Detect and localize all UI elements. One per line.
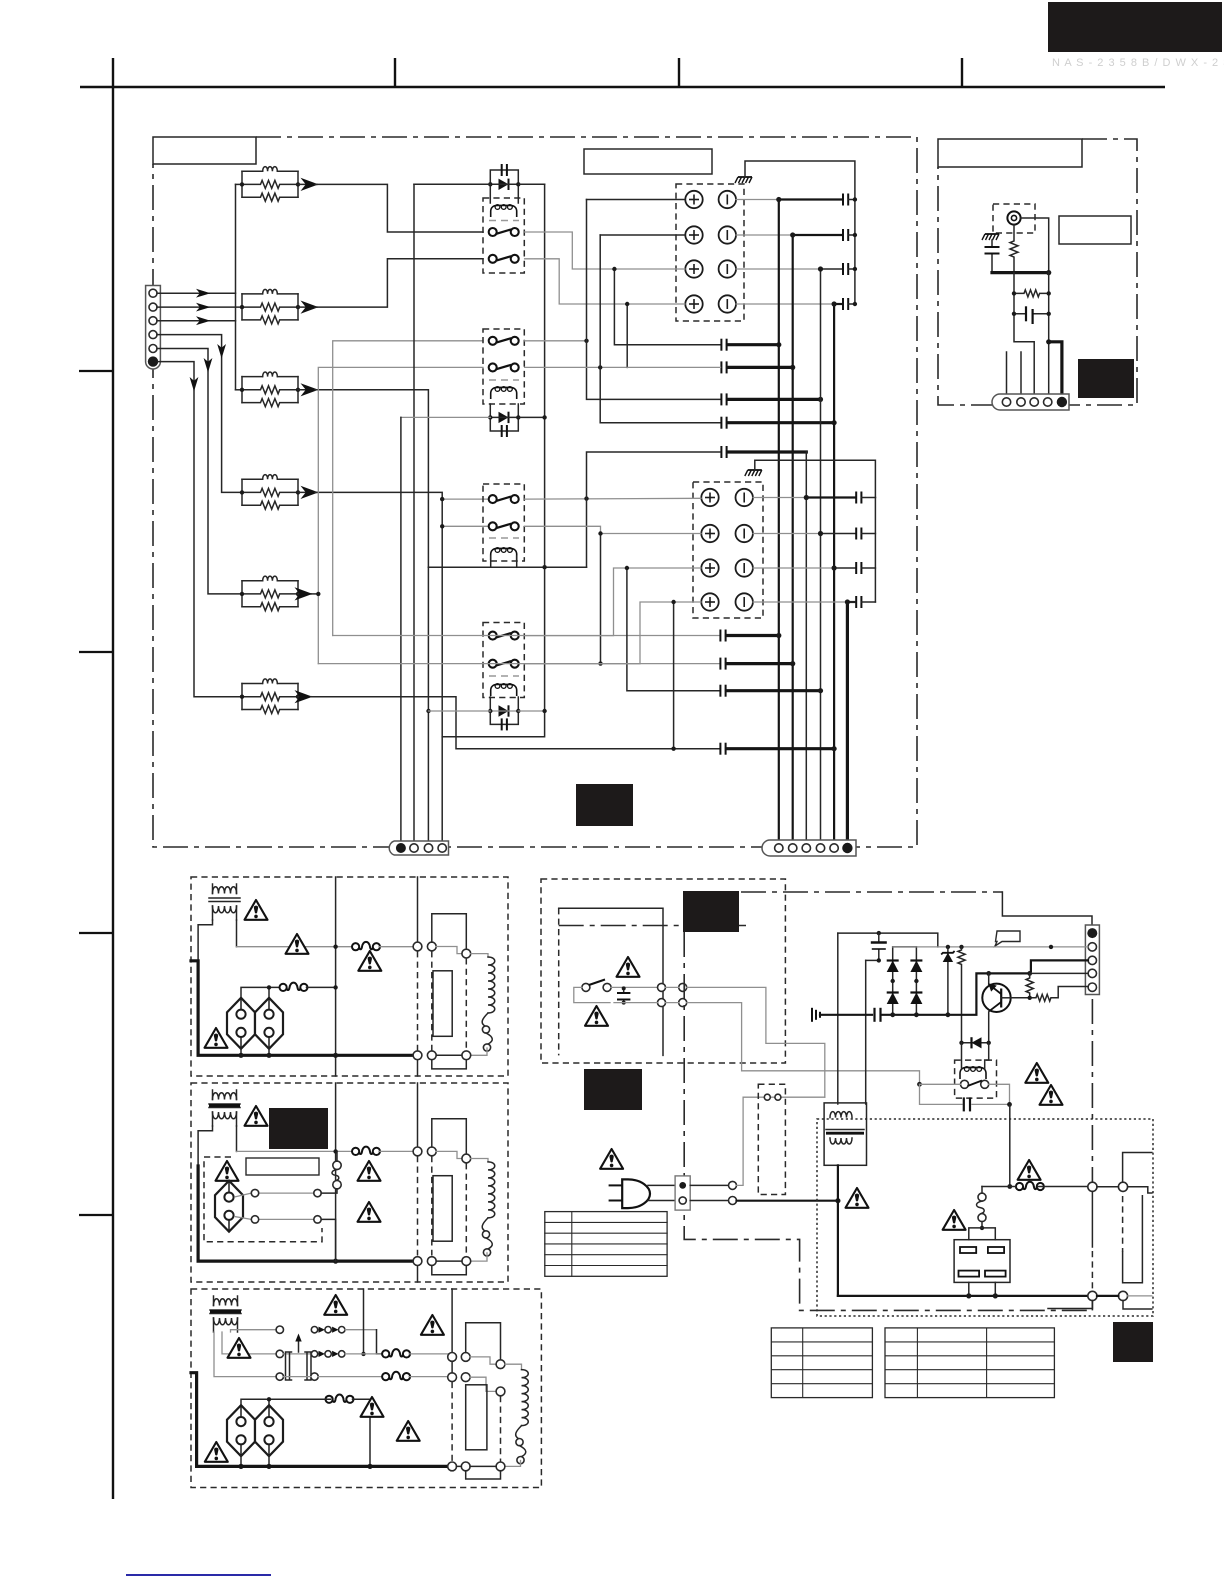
bracket B xyxy=(432,1119,467,1154)
warning triangle S1 xyxy=(617,957,640,977)
connector P4 pin 5 xyxy=(1057,397,1067,407)
wire relay K2.a to SP-A +1 xyxy=(525,340,587,342)
up arrow xyxy=(298,1340,300,1352)
selector row 1 xyxy=(276,1326,283,1333)
outlet B contact wires xyxy=(236,1193,314,1219)
below U C xyxy=(466,1471,501,1479)
fuse B2 to contact xyxy=(321,1189,337,1193)
output circles xyxy=(1088,1182,1097,1191)
fuse F-A1 xyxy=(352,942,380,950)
warning triangle C1 xyxy=(324,1295,347,1315)
speaker lead C xyxy=(505,1364,522,1369)
connector circles C row b xyxy=(448,1373,457,1382)
wire pin b1 riser to K2 diode xyxy=(401,416,490,418)
left RC riser jog to pin3 xyxy=(1014,273,1034,398)
riser pin b3 xyxy=(427,567,429,841)
black patch bottom right xyxy=(1113,1322,1153,1362)
relay K1 clamp diode xyxy=(488,164,520,203)
connector P5 pin3 xyxy=(1088,956,1096,964)
pin4 wire xyxy=(1030,972,1088,974)
selector row 3 xyxy=(276,1373,283,1380)
wire J1.4 down to B4 xyxy=(157,335,242,493)
warning triangle A2 xyxy=(286,934,309,954)
warning triangle C3 xyxy=(228,1338,251,1358)
bundle riser pin4 xyxy=(820,269,822,841)
speaker lead B xyxy=(471,1159,488,1162)
ground G1 xyxy=(735,177,752,183)
tick top 3 xyxy=(678,58,680,87)
connector P4 pin 4 xyxy=(1044,398,1052,406)
step to speaker circle B xyxy=(436,1151,462,1158)
resistor R22 horizontal xyxy=(1011,987,1088,1002)
relay K5 contact xyxy=(961,1080,969,1088)
connector P2 pin 1 xyxy=(396,843,406,853)
SP-B minus row wires to caps xyxy=(753,497,806,499)
connector P4 pin 3 xyxy=(1030,398,1038,406)
bottom connector P2 body xyxy=(389,841,448,855)
diode D3 xyxy=(887,993,899,1005)
lower coupling caps SP-A xyxy=(721,339,726,351)
riser x401 to bottom connector pin b1 xyxy=(400,417,402,841)
connector circles A bottom xyxy=(413,1051,422,1060)
label box B xyxy=(246,1158,319,1175)
connector P5 pin5 xyxy=(1088,983,1096,991)
wire B6 to SP-B cap row 4 xyxy=(311,697,720,749)
connector P4 pin 1 xyxy=(1002,398,1010,406)
border top rule xyxy=(80,86,1165,89)
relay K1 divider xyxy=(489,220,519,222)
relay K3 dashed box xyxy=(483,484,524,561)
wire relay K4.b to SP-B +4 xyxy=(525,602,701,664)
wire sw to transformer primary xyxy=(687,987,825,1097)
thick branch to pin5 xyxy=(1049,342,1062,398)
supply mid rail y946.9 xyxy=(893,946,1088,948)
warning triangle C2 xyxy=(421,1315,444,1335)
transistor Q1 xyxy=(982,973,1010,1012)
ground G4 xyxy=(812,1008,820,1022)
diode D2 xyxy=(910,947,922,1015)
T-C secondary drops xyxy=(214,1332,276,1377)
wire G2 to SP-B cap rail xyxy=(755,460,876,497)
connector J1 pin 1 xyxy=(149,289,157,297)
below U A xyxy=(432,1060,467,1069)
warning triangle C6 xyxy=(205,1442,228,1462)
relay K2 contact b xyxy=(489,363,519,371)
connector P5 pin2 xyxy=(1088,943,1096,951)
switch left join xyxy=(574,987,610,1002)
live wire riser xyxy=(737,1097,825,1185)
zener ZD xyxy=(941,947,954,1015)
arrow B3 out xyxy=(298,389,317,391)
AC outlet C2 xyxy=(255,1405,283,1456)
connector P5 pin4 xyxy=(1088,969,1096,977)
wire J1.5 down to B5 xyxy=(157,349,242,594)
wire B4 out to bus bottom xyxy=(315,492,442,736)
inlet to board circles xyxy=(690,1184,728,1186)
wire relay K2 contact b left leg xyxy=(318,367,483,663)
relay K2 coil xyxy=(491,387,517,399)
relay K4 divider xyxy=(489,675,519,677)
black patch AC xyxy=(584,1069,642,1110)
phones boundary tab xyxy=(938,139,1082,167)
riser to fuse line xyxy=(1009,1104,1011,1186)
outlet dashed area B xyxy=(204,1157,322,1242)
tables T1 xyxy=(771,1328,872,1398)
warning triangle C4 xyxy=(361,1397,384,1417)
cap rail right SP-B xyxy=(874,498,876,603)
T-B secondary left drop xyxy=(198,1126,212,1166)
AC plug xyxy=(609,1179,650,1208)
relay K1 dashed box xyxy=(483,198,524,273)
connector P4 body xyxy=(992,394,1069,410)
tick left 4 xyxy=(79,1214,113,1216)
bundle riser pin2 xyxy=(792,235,794,841)
phones board dash-dot boundary xyxy=(938,139,1137,405)
AC outlet A1 xyxy=(227,998,255,1049)
capacitor C11 horizontal xyxy=(1014,306,1049,324)
relay K2 dashed box xyxy=(483,329,524,404)
top rail xyxy=(838,933,938,947)
wire B3 out to relay K3 coil line riser xyxy=(315,390,428,567)
arrow B2 out xyxy=(298,306,317,308)
wire relay K4.a to SP-B +3 xyxy=(525,568,701,636)
smoothing cap C20 xyxy=(871,933,887,960)
relay K1 coil xyxy=(491,205,517,217)
warning triangle C5 xyxy=(397,1421,420,1441)
bridge rect top xyxy=(893,946,917,948)
pickup coil xyxy=(977,1187,987,1231)
riser C corner row1 to row2 xyxy=(377,1330,384,1354)
bracket C xyxy=(466,1323,501,1360)
connector P3 pin 3 xyxy=(802,844,810,852)
voice coil A xyxy=(482,957,495,1051)
junction dots SP-B rows on bundle xyxy=(804,495,809,500)
relay K2 clamp diode xyxy=(488,404,520,437)
T-A thick output xyxy=(191,961,413,1056)
connector circles B top xyxy=(413,1147,422,1156)
tick top 2 xyxy=(394,58,396,87)
connector P3 pin 5 xyxy=(830,844,838,852)
steps C xyxy=(470,1357,496,1364)
footer blue rule xyxy=(126,1574,271,1576)
label box (empty) xyxy=(1059,216,1131,244)
selector brackets xyxy=(286,1352,292,1380)
connector P5 pin1 xyxy=(1087,928,1097,938)
connector circles C row a xyxy=(448,1353,457,1362)
connector P3 pin 1 xyxy=(775,844,783,852)
relay K3 contact b xyxy=(489,522,519,530)
relay K4 contact b xyxy=(489,660,519,668)
relay K3 coil xyxy=(491,548,517,560)
AC outlet A2 xyxy=(255,998,283,1049)
connector P5 body xyxy=(1085,925,1099,995)
thick jumpers caps to bundle xyxy=(728,343,779,346)
T-B thick output xyxy=(198,1166,413,1261)
resistor R20 vertical xyxy=(958,947,965,1043)
right assembly A verticals xyxy=(417,877,419,942)
speaker lead A xyxy=(471,954,488,957)
thick return rail xyxy=(992,271,1049,274)
relay K4 contact a xyxy=(489,632,519,640)
fuse F-P xyxy=(1016,1182,1044,1190)
outlet A stems down xyxy=(241,1048,269,1055)
riser +2 / branch to cap line xyxy=(600,235,720,423)
fuse F-C3 xyxy=(326,1395,354,1403)
emitter drop xyxy=(988,1012,990,1043)
wire sw lower to relay contact xyxy=(687,1003,920,1085)
arrow B6 out xyxy=(298,696,311,698)
resistor R11 horizontal xyxy=(1014,290,1049,297)
branch +3 to cap line xyxy=(614,269,720,345)
ground G3 xyxy=(982,234,999,240)
mains transformer T-P xyxy=(824,1103,866,1165)
relay K4 clamp diode xyxy=(488,697,520,730)
inner rect A xyxy=(433,971,452,1037)
branch +4 to cap line xyxy=(673,602,675,749)
secondary drop thick xyxy=(837,1165,839,1296)
bundle riser pin5 xyxy=(833,304,835,841)
tables T2 xyxy=(885,1328,1054,1398)
connector P2 pin 3 xyxy=(424,844,432,852)
warning triangle P4 xyxy=(943,1210,966,1230)
ground G2 xyxy=(745,470,762,476)
protector block xyxy=(954,1228,1010,1296)
inner rect BR xyxy=(1122,1196,1124,1252)
lower cap wire from K2b xyxy=(318,663,719,665)
wire B1 out to relay K1 contact a xyxy=(315,184,483,232)
wire J1.3 down to relay coil line xyxy=(157,320,236,322)
phones jack J2 xyxy=(1007,211,1020,224)
T-B thick core xyxy=(209,1104,240,1107)
relay K5 dashed box xyxy=(955,1060,997,1098)
phones jack dashed box xyxy=(993,204,1035,233)
wire jack tip right xyxy=(1021,218,1049,273)
SP-A terminals - xyxy=(719,191,736,208)
resistor-inductor block B6 xyxy=(240,679,300,714)
fuse F-C1 xyxy=(382,1349,410,1357)
cap bottom link xyxy=(866,959,879,961)
SP-B terminals + xyxy=(701,489,718,506)
voice coil B xyxy=(482,1162,495,1256)
connector J1 pin 4 xyxy=(149,331,157,339)
dotted enclosure xyxy=(817,1119,1153,1316)
selector row 2 xyxy=(276,1350,283,1357)
warning triangle P2 xyxy=(1040,1085,1063,1105)
T-B right leg xyxy=(236,1126,238,1151)
bundle riser pin6 xyxy=(846,602,849,841)
inner tab lines xyxy=(559,908,663,1055)
fuse F-B1 xyxy=(352,1147,380,1155)
fuse F-B2 vertical xyxy=(332,1151,341,1189)
coil bus vertical xyxy=(442,184,544,841)
connector circles A top xyxy=(413,942,422,951)
diode D5 xyxy=(959,1037,991,1048)
coupling caps SP-B rows xyxy=(856,492,861,504)
fuse line B xyxy=(237,1150,354,1152)
callout bubble xyxy=(995,931,1020,946)
pin3 thick L xyxy=(1031,960,1088,971)
warning triangle P5 xyxy=(1018,1160,1041,1180)
relay K3 coil legs to line xyxy=(491,556,517,567)
wire relay K3.a to SP-B +1 xyxy=(525,497,701,500)
connector circles C bottom xyxy=(448,1462,457,1471)
coupling caps SP-A rows xyxy=(843,194,848,206)
inner rect C xyxy=(466,1385,487,1450)
resistor-inductor block B4 xyxy=(240,475,300,510)
wire J1.6 down to B6 xyxy=(158,362,242,697)
boundary tab / feed to pin1 xyxy=(1002,892,1092,929)
resistor-inductor block B2 xyxy=(240,289,300,324)
wire relay K2 contact a left leg xyxy=(333,341,483,636)
table T0 xyxy=(545,1212,667,1277)
tick left 1 xyxy=(79,370,113,372)
transformer T-B xyxy=(209,1090,240,1126)
warning triangle A1 xyxy=(245,900,268,920)
SP-A dashed box xyxy=(676,184,744,321)
wire J1.1 to node A1 xyxy=(157,292,236,294)
branch +2 to cap line xyxy=(600,534,602,664)
wire relay K3.b to SP-B +2 xyxy=(525,526,701,533)
branch +1 riser up to cap line xyxy=(587,452,721,567)
wire pin b3 to K4 diode xyxy=(429,710,491,712)
contact B lower to thick xyxy=(321,1219,335,1261)
warning triangle P1 xyxy=(1025,1063,1048,1083)
outlet C stems xyxy=(241,1456,269,1467)
long vertical B xyxy=(335,1083,337,1261)
warning triangle B2 xyxy=(216,1161,239,1181)
connector P3 pin 4 xyxy=(816,844,824,852)
branch +3 to cap line xyxy=(627,568,720,691)
cap across switch xyxy=(617,986,630,1004)
wire riser to B1 xyxy=(236,183,243,185)
below U B xyxy=(432,1266,467,1275)
right RC riser to pin4 xyxy=(1048,273,1050,398)
title blackout box xyxy=(1048,2,1222,52)
inlet block xyxy=(675,1176,690,1210)
thick DC rail xyxy=(838,1295,1088,1297)
tick top 4 xyxy=(961,58,963,87)
wire riser to B3 xyxy=(236,389,243,391)
lower coupling caps SP-B xyxy=(720,630,725,642)
SP-A terminals + xyxy=(685,191,702,208)
bracket A xyxy=(432,914,467,949)
link down to transformer right xyxy=(865,960,867,1104)
warning triangle B3 xyxy=(358,1161,381,1181)
relay K3 left stubs xyxy=(442,499,492,526)
warning triangle B1 xyxy=(245,1106,268,1126)
black patch PSW xyxy=(683,891,739,932)
vertical links xyxy=(1091,1191,1093,1247)
voice coil C xyxy=(516,1370,529,1464)
tick left 3 xyxy=(79,932,113,934)
warning triangle AC1 xyxy=(600,1149,623,1169)
relay K3 contact a xyxy=(489,495,519,503)
boundary dash-dot xyxy=(741,891,1002,893)
connector J1 pin 3 xyxy=(149,317,157,325)
connector P3 pin 6 xyxy=(842,843,852,853)
relay K4 coil xyxy=(491,684,517,696)
label box (empty) xyxy=(584,149,712,174)
wire relay K2.b common line xyxy=(525,366,628,368)
warning triangle B4 xyxy=(358,1202,381,1222)
fuse F-C2 xyxy=(382,1372,410,1380)
neutral thick xyxy=(737,1200,838,1202)
contact out / cap C22 xyxy=(989,1084,1010,1104)
AC outlet B xyxy=(215,1181,243,1232)
bundle riser pin1 xyxy=(778,200,780,842)
right assembly B verticals xyxy=(417,1083,419,1147)
wire node A1 riser feeding R-blocks B1/B3 xyxy=(235,184,237,389)
thick bottom C xyxy=(191,1373,448,1467)
T-A right leg to fuse line xyxy=(236,920,238,947)
power switch S xyxy=(582,983,590,991)
connector J1 pin 5 xyxy=(149,345,157,353)
transformer T-C xyxy=(210,1296,241,1332)
board black patch xyxy=(576,784,633,826)
arrow B5 out xyxy=(298,593,311,595)
bottom rail thick xyxy=(820,973,1030,1014)
block A dashed box xyxy=(191,877,508,1076)
diode D4 xyxy=(910,993,922,1005)
riser x414 to bottom connector pin b2 xyxy=(413,184,415,841)
inner rect B xyxy=(433,1176,452,1242)
resistor R10 vertical xyxy=(1010,225,1018,273)
relay K5 coil xyxy=(960,1067,986,1079)
connector P2 pin 2 xyxy=(410,844,418,852)
fuse line A xyxy=(237,946,354,948)
wire pin2riser to K1 diode xyxy=(414,183,490,185)
block C dashed box xyxy=(191,1289,541,1488)
fuse line to assembly xyxy=(1010,1186,1011,1188)
border left rule xyxy=(112,58,114,1499)
long vertical A xyxy=(335,877,337,1076)
stub risers pins 1,2 xyxy=(1007,352,1022,398)
warning triangle A3 xyxy=(358,951,381,971)
wire G1 to cap rail xyxy=(745,161,855,200)
arrow B1 out xyxy=(298,183,317,185)
long vertical C xyxy=(363,1289,365,1354)
wire relay K1.b to SP-A +4 xyxy=(525,259,685,304)
interlock dashed box xyxy=(758,1084,785,1194)
bottom connector P3 body xyxy=(762,840,856,856)
connector P2 pin 4 xyxy=(438,844,446,852)
wire B2 out to relay K1 contact b xyxy=(315,259,483,307)
top bracket BR xyxy=(1123,1153,1152,1183)
resistor-inductor block B3 xyxy=(240,372,300,407)
wire B5 out node xyxy=(311,593,318,595)
switch box dashed xyxy=(541,879,785,1063)
svg-text:N A S - 2 3 5 8 B / D W X - 2: N A S - 2 3 5 8 B / D W X - 2 3 5 xyxy=(1052,57,1224,69)
relay K2 divider xyxy=(489,379,519,381)
AC outlet C1 xyxy=(227,1405,255,1456)
relay K4 dashed box xyxy=(483,623,524,698)
relay K1 contact a xyxy=(489,228,519,236)
wire K1 diode right to bus xyxy=(518,183,544,185)
block B dashed box xyxy=(191,1083,508,1282)
riser from +4 to common line xyxy=(626,304,628,367)
step to speaker circle A xyxy=(436,947,462,954)
connector P4 pin 2 xyxy=(1017,398,1025,406)
resistor-inductor block B5 xyxy=(240,576,300,611)
connector circles B bottom xyxy=(413,1257,422,1266)
bundle riser pin3 xyxy=(805,452,807,841)
relay K3 divider xyxy=(489,537,519,539)
black patch phones xyxy=(1078,359,1134,398)
thick jumpers SP-B caps to bundle xyxy=(727,634,779,637)
cap rail right SP-A xyxy=(854,200,856,305)
connector J1 pin 2 xyxy=(149,303,157,311)
transformer T-A xyxy=(209,884,240,920)
